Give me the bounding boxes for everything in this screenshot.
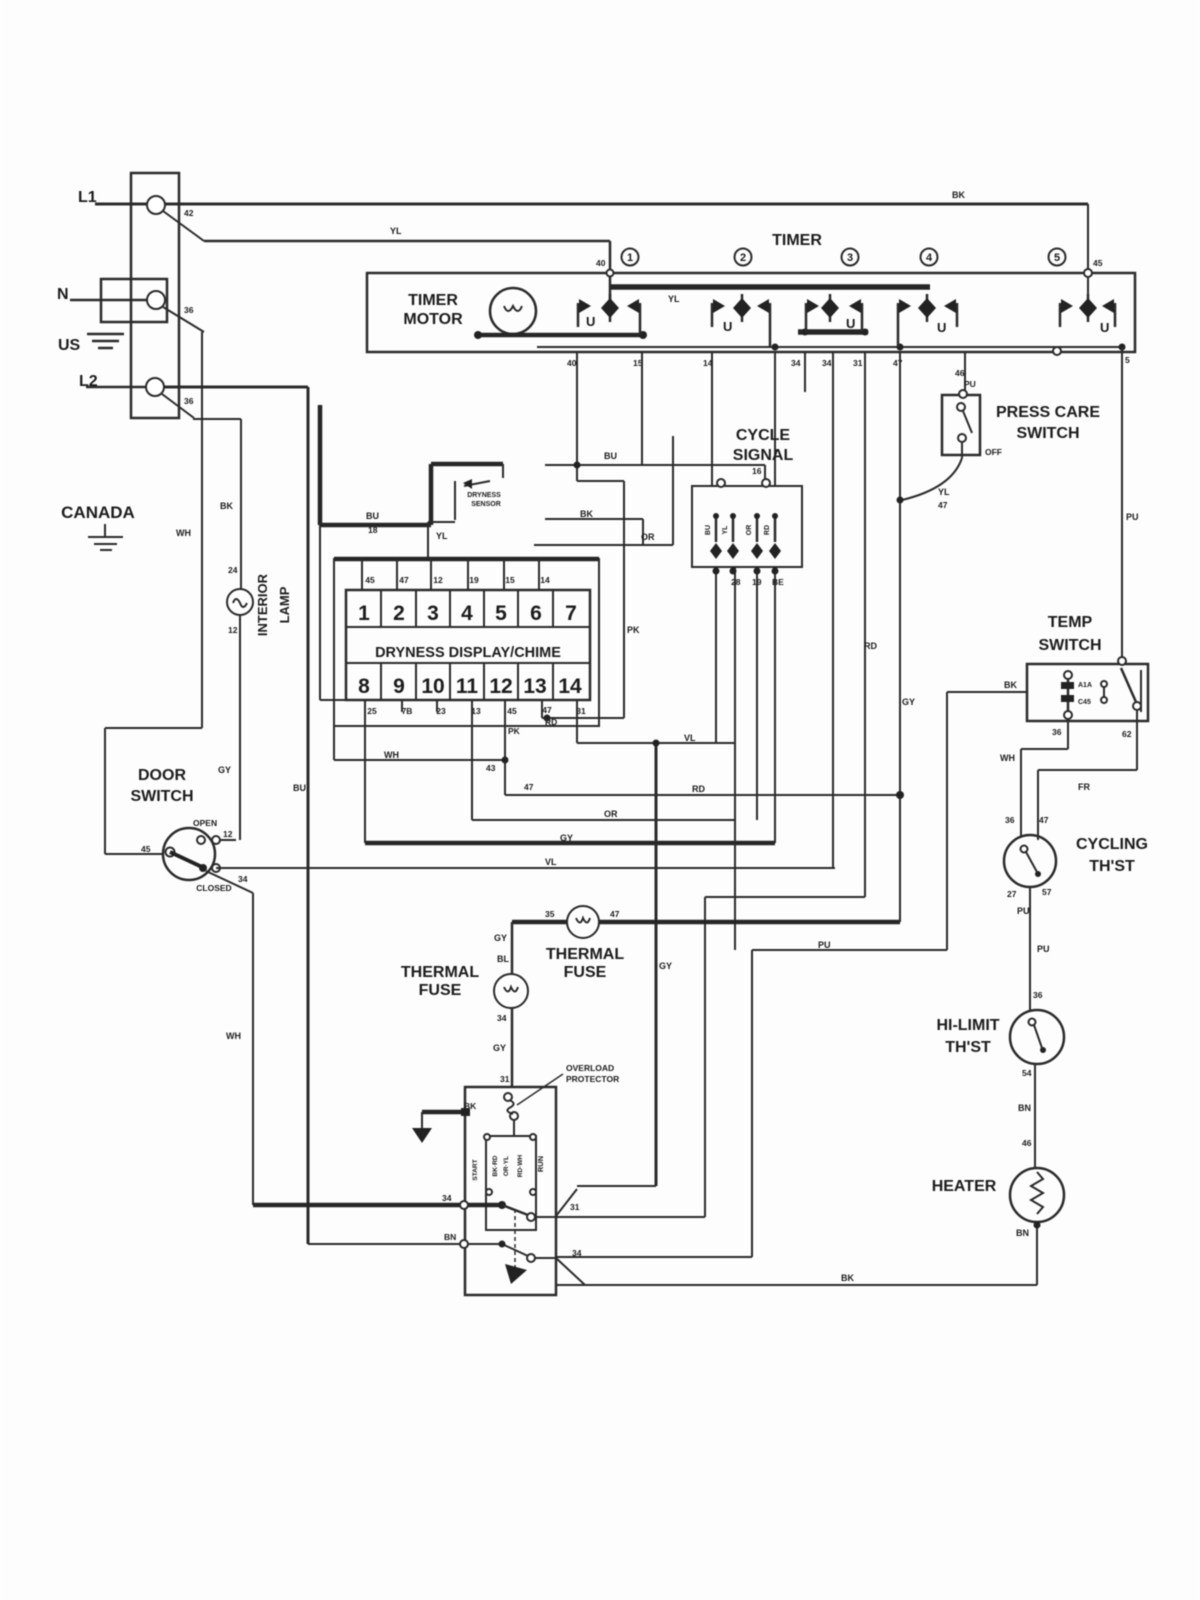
svg-text:31: 31 (500, 1074, 510, 1084)
svg-text:25: 25 (367, 706, 377, 716)
svg-text:HI-LIMIT: HI-LIMIT (936, 1017, 999, 1034)
svg-text:CYCLING: CYCLING (1076, 836, 1148, 853)
svg-text:7B: 7B (402, 706, 413, 716)
svg-text:36: 36 (184, 396, 194, 406)
svg-text:46: 46 (955, 368, 965, 378)
svg-text:BK: BK (841, 1273, 854, 1283)
svg-text:47: 47 (524, 782, 534, 792)
svg-text:BK: BK (580, 509, 593, 519)
svg-text:3: 3 (427, 602, 439, 625)
svg-text:WH: WH (1000, 753, 1015, 763)
svg-text:N: N (57, 286, 69, 303)
svg-text:OPEN: OPEN (193, 818, 217, 828)
svg-text:PU: PU (964, 379, 976, 389)
svg-text:2: 2 (393, 602, 405, 625)
svg-text:PK: PK (627, 625, 640, 635)
svg-text:57: 57 (1042, 887, 1052, 897)
svg-text:47: 47 (938, 500, 948, 510)
svg-text:SENSOR: SENSOR (471, 501, 501, 508)
svg-text:FUSE: FUSE (419, 982, 462, 999)
svg-text:BU: BU (604, 451, 617, 461)
svg-text:34: 34 (497, 1013, 507, 1023)
svg-text:45: 45 (1093, 258, 1103, 268)
svg-text:VL: VL (545, 857, 557, 867)
svg-text:36: 36 (1052, 727, 1062, 737)
svg-text:6: 6 (530, 602, 542, 625)
svg-text:47: 47 (610, 909, 620, 919)
svg-text:BE: BE (772, 577, 784, 587)
svg-text:GY: GY (218, 765, 231, 775)
svg-text:7: 7 (565, 602, 577, 625)
svg-text:12: 12 (228, 625, 238, 635)
svg-text:GY: GY (494, 933, 507, 943)
svg-text:LAMP: LAMP (277, 586, 292, 623)
svg-text:YL: YL (938, 487, 950, 497)
svg-text:43: 43 (486, 763, 496, 773)
svg-text:54: 54 (1022, 1068, 1032, 1078)
svg-text:MOTOR: MOTOR (403, 311, 463, 328)
svg-text:36: 36 (1033, 990, 1043, 1000)
svg-text:U: U (846, 316, 855, 331)
svg-text:36: 36 (1005, 815, 1015, 825)
svg-text:YL: YL (722, 525, 729, 535)
svg-text:CLOSED: CLOSED (196, 883, 231, 893)
svg-text:YL: YL (436, 531, 448, 541)
svg-text:23: 23 (436, 706, 446, 716)
svg-text:5: 5 (1125, 355, 1130, 365)
svg-text:RUN: RUN (536, 1156, 545, 1172)
svg-text:19: 19 (469, 575, 479, 585)
svg-text:PU: PU (818, 940, 831, 950)
svg-text:CANADA: CANADA (61, 503, 135, 522)
svg-text:14: 14 (558, 675, 582, 698)
svg-text:31: 31 (570, 1202, 580, 1212)
svg-text:BN: BN (1016, 1228, 1029, 1238)
svg-text:46: 46 (1022, 1138, 1032, 1148)
svg-text:18: 18 (368, 525, 378, 535)
svg-text:34: 34 (442, 1193, 452, 1203)
svg-text:TIMER: TIMER (408, 292, 458, 309)
svg-text:12: 12 (489, 675, 512, 698)
svg-text:YL: YL (390, 226, 402, 236)
svg-text:36: 36 (184, 305, 194, 315)
svg-text:RD: RD (692, 784, 705, 794)
svg-text:L1: L1 (78, 189, 97, 206)
svg-text:SWITCH: SWITCH (1038, 637, 1101, 654)
svg-text:19: 19 (752, 577, 762, 587)
svg-text:RD·WH: RD·WH (517, 1155, 524, 1178)
svg-text:PU: PU (1126, 512, 1139, 522)
svg-text:A1A: A1A (1078, 682, 1092, 689)
svg-text:VL: VL (684, 733, 696, 743)
svg-text:40: 40 (567, 358, 577, 368)
svg-text:4: 4 (926, 252, 933, 264)
svg-text:BN: BN (444, 1232, 456, 1242)
svg-text:RD: RD (864, 641, 877, 651)
svg-text:GY: GY (560, 833, 573, 843)
svg-text:C45: C45 (1078, 699, 1091, 706)
svg-text:GY: GY (659, 961, 672, 971)
svg-text:34: 34 (572, 1248, 582, 1258)
svg-text:DOOR: DOOR (138, 767, 186, 784)
svg-text:13: 13 (471, 706, 481, 716)
svg-text:BK: BK (220, 501, 233, 511)
svg-text:DRYNESS DISPLAY/CHIME: DRYNESS DISPLAY/CHIME (375, 645, 561, 661)
svg-text:BU: BU (366, 511, 379, 521)
svg-text:US: US (58, 337, 81, 354)
svg-text:45: 45 (141, 844, 151, 854)
svg-text:34: 34 (238, 874, 248, 884)
svg-text:10: 10 (421, 675, 444, 698)
svg-text:OR·YL: OR·YL (503, 1156, 510, 1176)
svg-text:BU: BU (705, 525, 712, 535)
svg-text:OR: OR (746, 525, 753, 536)
svg-text:PU: PU (1037, 944, 1050, 954)
svg-text:BK: BK (1004, 680, 1017, 690)
svg-text:35: 35 (545, 909, 555, 919)
svg-text:TH'ST: TH'ST (945, 1039, 991, 1056)
svg-text:FR: FR (1078, 782, 1090, 792)
svg-text:40: 40 (596, 258, 606, 268)
svg-text:47: 47 (399, 575, 409, 585)
svg-text:14: 14 (540, 575, 550, 585)
svg-text:THERMAL: THERMAL (546, 946, 624, 963)
svg-text:U: U (586, 314, 595, 329)
svg-text:8: 8 (358, 675, 370, 698)
svg-text:SWITCH: SWITCH (130, 788, 193, 805)
svg-text:OFF: OFF (985, 447, 1002, 457)
svg-text:TH'ST: TH'ST (1089, 858, 1135, 875)
svg-text:INTERIOR: INTERIOR (255, 573, 270, 636)
svg-text:OR: OR (604, 809, 618, 819)
svg-text:45: 45 (365, 575, 375, 585)
svg-text:GY: GY (902, 697, 915, 707)
svg-text:9: 9 (393, 675, 405, 698)
svg-text:4: 4 (461, 602, 473, 625)
svg-text:47: 47 (542, 705, 552, 715)
svg-text:34: 34 (822, 358, 832, 368)
svg-text:34: 34 (791, 358, 801, 368)
svg-text:1: 1 (627, 252, 633, 264)
svg-text:28: 28 (731, 577, 741, 587)
svg-text:47: 47 (1039, 815, 1049, 825)
svg-text:BU: BU (293, 783, 306, 793)
svg-text:YL: YL (668, 294, 680, 304)
svg-text:3: 3 (847, 252, 853, 264)
svg-text:PROTECTOR: PROTECTOR (566, 1074, 619, 1084)
svg-text:U: U (723, 319, 732, 334)
svg-text:15: 15 (505, 575, 515, 585)
svg-text:2: 2 (740, 252, 746, 264)
svg-text:TIMER: TIMER (772, 232, 822, 249)
svg-text:TEMP: TEMP (1048, 614, 1093, 631)
svg-text:CYCLE: CYCLE (736, 427, 791, 444)
svg-text:WH: WH (176, 528, 191, 538)
svg-text:BL: BL (497, 954, 509, 964)
svg-text:OVERLOAD: OVERLOAD (566, 1063, 614, 1073)
svg-text:BK·RD: BK·RD (492, 1155, 499, 1176)
svg-text:U: U (1100, 320, 1109, 335)
svg-text:PRESS CARE: PRESS CARE (996, 404, 1100, 421)
svg-text:U: U (937, 320, 946, 335)
svg-text:WH: WH (384, 750, 399, 760)
svg-text:HEATER: HEATER (932, 1178, 997, 1195)
svg-text:31: 31 (853, 358, 863, 368)
svg-text:47: 47 (893, 358, 903, 368)
svg-text:OR: OR (641, 532, 655, 542)
svg-text:GY: GY (493, 1043, 506, 1053)
svg-text:FUSE: FUSE (564, 964, 607, 981)
svg-text:SIGNAL: SIGNAL (733, 447, 794, 464)
svg-text:16: 16 (752, 466, 762, 476)
svg-text:5: 5 (1054, 252, 1060, 264)
svg-text:5: 5 (495, 602, 507, 625)
svg-text:12: 12 (433, 575, 443, 585)
svg-text:THERMAL: THERMAL (401, 964, 479, 981)
svg-text:DRYNESS: DRYNESS (467, 492, 501, 499)
svg-text:12: 12 (223, 829, 233, 839)
svg-text:13: 13 (523, 675, 546, 698)
svg-text:PU: PU (1017, 906, 1030, 916)
svg-text:24: 24 (228, 565, 238, 575)
svg-text:1: 1 (358, 602, 370, 625)
svg-text:RD: RD (764, 525, 771, 535)
svg-text:BN: BN (1018, 1103, 1031, 1113)
svg-text:BK: BK (952, 190, 965, 200)
svg-text:31: 31 (576, 706, 586, 716)
svg-text:42: 42 (184, 208, 194, 218)
svg-text:SWITCH: SWITCH (1016, 425, 1079, 442)
svg-text:START: START (472, 1159, 479, 1180)
svg-text:62: 62 (1122, 729, 1132, 739)
svg-text:PK: PK (508, 726, 521, 736)
svg-text:45: 45 (507, 706, 517, 716)
svg-text:27: 27 (1007, 889, 1017, 899)
svg-text:11: 11 (456, 675, 479, 698)
svg-text:WH: WH (226, 1031, 241, 1041)
